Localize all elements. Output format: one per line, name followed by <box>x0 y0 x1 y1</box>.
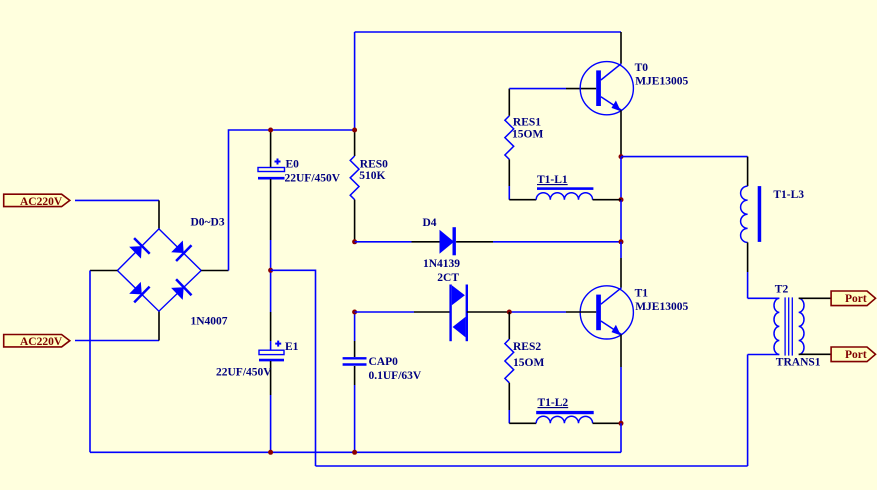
wire E1 top to right <box>271 270 316 466</box>
junction dot E0 top <box>268 128 273 133</box>
svg-text:T0: T0 <box>635 62 649 74</box>
junction dot D4 right <box>619 239 624 244</box>
junction dot E1 bottom rail <box>268 450 273 455</box>
svg-text:22UF/450V: 22UF/450V <box>216 367 272 379</box>
svg-text:510K: 510K <box>359 170 385 182</box>
wire bridge up to DC rail <box>229 130 355 271</box>
capacitor E0 <box>258 130 341 270</box>
bridge diode D3 (bottom to right edge) <box>171 279 191 300</box>
svg-text:TRANS1: TRANS1 <box>776 356 821 368</box>
transistor T1 <box>580 286 688 339</box>
svg-text:T1-L3: T1-L3 <box>773 189 804 201</box>
bridge diode D1 (top to right edge) <box>171 241 191 262</box>
svg-text:AC220V: AC220V <box>20 336 63 348</box>
svg-text:T1-L2: T1-L2 <box>538 397 569 409</box>
bridge rectifier D0~D3 diamond <box>117 229 201 311</box>
wire left rail down <box>89 271 91 453</box>
svg-text:15OM: 15OM <box>513 357 544 369</box>
svg-text:1N4139: 1N4139 <box>423 258 460 270</box>
capacitor CAP0 <box>343 312 422 452</box>
wire bottom rail 1 <box>90 451 621 453</box>
svg-text:Port: Port <box>845 293 867 305</box>
wire T1-L3 down to T2 <box>747 272 749 298</box>
svg-text:2CT: 2CT <box>437 272 459 284</box>
inductor T1-L3 <box>741 157 805 272</box>
svg-text:D0~D3: D0~D3 <box>191 217 225 229</box>
diode D4 <box>412 217 494 270</box>
base pin T1 <box>566 311 596 313</box>
wire bridge right lead <box>201 270 228 272</box>
junction dot E1 top <box>268 268 273 273</box>
wire 2CT left <box>355 311 414 313</box>
svg-text:T2: T2 <box>775 284 789 296</box>
wire down to D4 node <box>620 200 622 242</box>
wire emitter T1 down <box>620 367 622 423</box>
resistor RES0 <box>350 130 388 242</box>
wire D4 left <box>355 241 412 243</box>
junction dot CAP0 bottom rail <box>352 450 357 455</box>
svg-text:MJE13005: MJE13005 <box>635 301 688 313</box>
wire base T0 <box>509 88 566 90</box>
wire down to T1 collector <box>620 242 622 258</box>
svg-text:RES2: RES2 <box>513 341 541 353</box>
port AC220V left-top <box>4 194 70 208</box>
bridge diode D2 (left to bottom edge) <box>129 282 149 303</box>
junction dot 2CT / RES2 / base <box>507 310 512 315</box>
resistor RES1 <box>505 89 544 200</box>
svg-text:T1-L1: T1-L1 <box>537 174 568 186</box>
diac 2CT <box>414 272 509 341</box>
junction dot T1-L1 right <box>619 197 624 202</box>
svg-text:E0: E0 <box>286 158 300 170</box>
wire to T1-L3 <box>621 156 748 158</box>
wire bottom rail 2 <box>316 465 748 467</box>
transformer T2 <box>748 284 832 369</box>
svg-text:AC220V: AC220V <box>20 196 63 208</box>
port Port top-right <box>831 291 875 306</box>
wire up to top rail <box>354 32 356 130</box>
wire up to bridge bottom <box>158 311 160 340</box>
wire T1-L2 node to rail1 <box>620 423 622 452</box>
wire bridge left lead <box>90 270 117 272</box>
wire top rail <box>355 31 621 33</box>
transistor T0 <box>580 62 688 115</box>
inductor T1-L2 <box>509 397 621 423</box>
junction dot T1-L2 right <box>619 421 624 426</box>
svg-text:T1: T1 <box>635 288 649 300</box>
inductor T1-L1 <box>509 174 621 200</box>
junction dot CAP0 top / 2CT <box>352 310 357 315</box>
svg-text:15OM: 15OM <box>512 129 543 141</box>
svg-text:RES1: RES1 <box>513 116 541 128</box>
wire 2CT right to base <box>509 311 566 313</box>
svg-text:E1: E1 <box>285 341 299 353</box>
collector pin T1 <box>620 258 622 288</box>
wire emitter node down <box>620 157 622 200</box>
port AC220V left-bottom <box>4 335 70 349</box>
capacitor E1 <box>216 270 299 452</box>
svg-text:MJE13005: MJE13005 <box>635 76 688 88</box>
wire T2 left bottom down to rail2 <box>747 355 749 467</box>
wire from AC220V top <box>75 199 159 201</box>
svg-text:D4: D4 <box>423 217 437 229</box>
junction dot RES0 top <box>352 128 357 133</box>
port Port bottom-right <box>831 347 875 362</box>
svg-text:1N4007: 1N4007 <box>191 316 228 328</box>
resistor RES2 <box>505 312 545 423</box>
bridge diode D0 (left to top edge) <box>129 238 150 259</box>
base pin T0 <box>566 88 596 90</box>
emitter pin T0 <box>620 110 622 156</box>
svg-text:0.1UF/63V: 0.1UF/63V <box>369 370 422 382</box>
svg-text:Port: Port <box>845 349 867 361</box>
collector pin T0 <box>620 32 622 63</box>
wire from AC220V bottom <box>75 340 159 342</box>
junction dot RES0 bottom / D4 <box>352 239 357 244</box>
wire D4 right <box>493 241 621 243</box>
wire corner down to bridge top <box>158 200 160 229</box>
junction dot emitter T0 / L3 branch <box>619 154 624 159</box>
svg-text:22UF/450V: 22UF/450V <box>285 172 341 184</box>
svg-text:RES0: RES0 <box>360 158 388 170</box>
svg-text:CAP0: CAP0 <box>369 356 399 368</box>
emitter pin T1 <box>620 335 622 368</box>
